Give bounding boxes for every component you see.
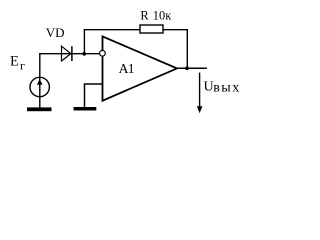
- ground bar under EG: [27, 107, 52, 111]
- arrowhead inside source (EMF direction up): [37, 79, 43, 85]
- ground bar at non-inverting input: [74, 107, 97, 111]
- wire non-inverting input horizontal: [84, 83, 102, 85]
- svg-text:R: R: [140, 9, 149, 23]
- voltage source EG circle: [30, 77, 49, 96]
- inverting input bubble: [100, 50, 106, 56]
- svg-text:E: E: [10, 53, 19, 69]
- wire feedback top right segment: [163, 29, 189, 31]
- svg-text:VD: VD: [46, 25, 65, 40]
- wire vertical source branch: [39, 53, 41, 107]
- svg-text:10к: 10к: [153, 9, 172, 23]
- svg-text:вых: вых: [213, 80, 241, 95]
- wire feedback down segment: [186, 30, 188, 69]
- wire non-inverting input vertical: [84, 84, 86, 107]
- junction node at diode cathode: [82, 52, 86, 56]
- arrow U_out stem: [199, 73, 201, 108]
- wire feedback top left segment: [84, 29, 141, 31]
- junction node at output: [185, 66, 189, 70]
- arrow U_out head: [197, 106, 203, 113]
- svg-text:г: г: [20, 59, 25, 73]
- wire output: [176, 67, 207, 69]
- wire input horizontal from source to op-amp input: [39, 53, 99, 55]
- op-amp A1 triangle: [103, 36, 178, 100]
- diode VD cathode bar: [71, 46, 73, 61]
- wire feedback riser: [83, 30, 85, 54]
- diode VD triangle: [62, 46, 71, 61]
- resistor R box: [140, 25, 163, 33]
- svg-text:U: U: [204, 79, 214, 94]
- svg-text:А1: А1: [119, 61, 134, 76]
